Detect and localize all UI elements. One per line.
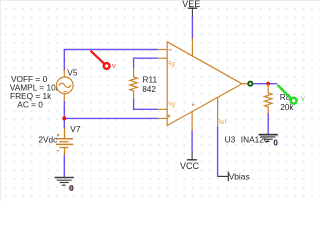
svg-text:Ref: Ref [217,119,227,126]
op-amp U3 triangle [167,42,242,126]
wire junction to plus pin [64,117,158,119]
power symbol VEE [188,8,197,16]
svg-text:V7: V7 [70,124,81,134]
pin Rg top [158,57,168,59]
svg-text:Vbias: Vbias [229,172,250,182]
svg-text:V5: V5 [67,68,78,78]
battery V7 [56,128,73,155]
junction dot output [266,82,270,86]
wire R11 bottom to Rg pin [134,99,158,110]
svg-text:0: 0 [69,183,73,192]
wire RS bottom to ground [267,113,269,134]
plus mark [167,114,170,117]
wire top horizontal to minus pin [64,49,158,51]
source V5 [57,70,74,102]
svg-text:VEE: VEE [182,0,200,9]
svg-text:AC = 0: AC = 0 [17,100,43,110]
resistor R11 [130,68,137,99]
pin V- bottom [191,112,193,131]
junction dot left [62,116,66,120]
svg-text:842: 842 [142,84,156,94]
wire V5 bottom to V7 top [63,101,65,129]
ground 0 (left) [55,178,74,186]
voltage probe red [91,51,116,70]
pin minus input [158,49,168,51]
svg-text:U3: U3 [225,135,236,145]
output node circle [248,82,252,86]
resistor RS [265,84,272,114]
svg-text:Rg: Rg [167,101,175,108]
ground 0 (right) [259,135,278,142]
minus mark [169,49,172,51]
V- polarity mark [192,104,195,107]
wire Ref pin down [217,127,219,177]
wire V5 top vertical [63,50,65,72]
pin Rg bottom [158,108,168,110]
svg-text:0: 0 [273,139,278,148]
svg-text:V: V [112,64,116,70]
pin Ref [217,97,219,127]
voltage probe green [278,85,305,104]
pin V+ top [191,39,193,57]
svg-text:Rg: Rg [167,61,175,68]
wire VEE to V+ pin [191,16,193,39]
offpage connector Vbias [217,172,228,182]
parameter text block V5 [10,74,63,110]
wire V7 bottom to ground [63,155,65,177]
svg-text:VCC: VCC [180,161,200,171]
svg-text:V: V [301,97,305,103]
power symbol VCC [187,152,197,160]
wire R11 top to Rg pin [134,58,158,68]
svg-text:2Vdc: 2Vdc [38,135,57,145]
svg-text:R11: R11 [143,74,158,84]
wire output [253,83,278,85]
pin output [242,83,248,85]
wire V- pin to VCC [191,130,193,152]
pin plus input [158,117,168,119]
